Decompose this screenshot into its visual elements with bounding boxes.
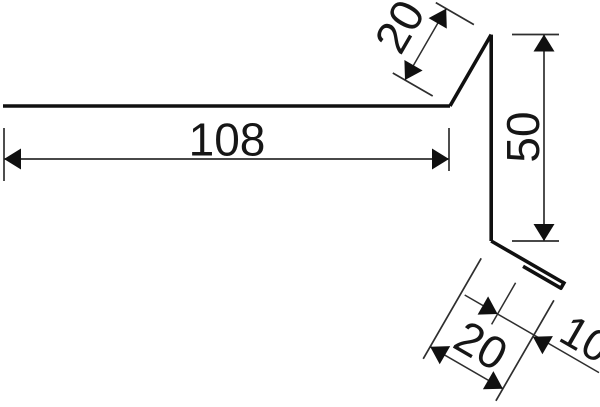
dim20top extension line lower (through corner B) bbox=[393, 73, 433, 96]
dim10 arrow right (outside, points left-up) bbox=[533, 336, 553, 354]
dim50 dimension line bbox=[543, 35, 545, 242]
profile rising segment (20 at -60deg) bbox=[450, 35, 491, 106]
dim20top extension line upper (through peak C) bbox=[436, 3, 474, 25]
dim108 dimension line bbox=[4, 158, 449, 160]
dim108 extension line left bbox=[3, 128, 5, 181]
profile top horizontal segment (108) bbox=[3, 104, 450, 108]
svg-text:10: 10 bbox=[552, 306, 600, 373]
profile bottom flange segment (20 at 30deg) bbox=[491, 241, 564, 283]
dim10 extension line (through hem end H) bbox=[492, 283, 516, 325]
dim20bottom arrow left bbox=[430, 346, 450, 364]
dim50 arrow top bbox=[534, 35, 555, 52]
dim50 extension line bottom (through corner D) bbox=[512, 240, 559, 242]
svg-text:20: 20 bbox=[446, 310, 516, 381]
profile vertical segment (50) bbox=[489, 35, 493, 241]
dim108 extension line right bbox=[448, 128, 450, 171]
dim20bottom arrow right bbox=[483, 371, 503, 389]
dim50 extension line top (through peak C) bbox=[512, 34, 559, 36]
svg-text:50: 50 bbox=[497, 111, 549, 162]
dim20bottom extension line left (through corner D) bbox=[423, 258, 481, 359]
dim20top arrow upper bbox=[429, 9, 447, 29]
dim10 arrow left (outside, points right-down) bbox=[478, 296, 498, 314]
dim10 dimension line with outside tails bbox=[465, 295, 599, 373]
dim108 arrow right bbox=[432, 149, 449, 170]
dim108 arrow left bbox=[4, 149, 21, 170]
dim20bottom dimension line bbox=[430, 347, 503, 389]
hem fold (10) bbox=[525, 267, 564, 288]
svg-text:108: 108 bbox=[189, 114, 266, 166]
dim20bottom extension line right (through flange end E) bbox=[496, 300, 554, 401]
dim20top dimension line bbox=[405, 9, 446, 80]
dim20top arrow lower bbox=[404, 60, 422, 80]
dim50 arrow bottom bbox=[534, 224, 555, 241]
svg-text:20: 20 bbox=[364, 0, 435, 62]
